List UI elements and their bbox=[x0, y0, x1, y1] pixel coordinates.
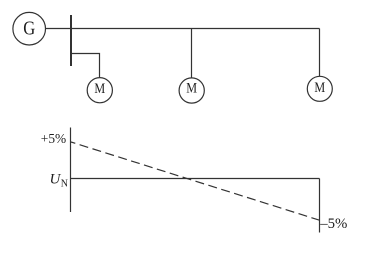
generator G1 bbox=[13, 12, 46, 45]
wire main bus bbox=[71, 28, 320, 30]
wire drop to motor M2 bbox=[191, 29, 193, 78]
dashed voltage drop line bbox=[71, 142, 320, 220]
busbar B1 bbox=[70, 15, 72, 66]
motor M1 bbox=[87, 78, 112, 103]
svg-text:M: M bbox=[94, 81, 105, 97]
svg-text:+5%: +5% bbox=[41, 131, 66, 146]
wire G to busbar bbox=[46, 28, 71, 30]
motor M3 bbox=[307, 76, 332, 101]
svg-text:M: M bbox=[186, 81, 197, 97]
svg-text:M: M bbox=[314, 80, 325, 96]
svg-text:N: N bbox=[61, 178, 68, 189]
wire nominal voltage line bbox=[71, 178, 320, 180]
motor M2 bbox=[179, 78, 204, 103]
graph right vertical line bbox=[319, 179, 321, 233]
wire drop to motor M3 bbox=[319, 29, 321, 77]
svg-text:U: U bbox=[50, 171, 62, 187]
svg-text:–5%: –5% bbox=[319, 216, 347, 232]
svg-text:G: G bbox=[23, 19, 35, 40]
graph vertical axis bbox=[70, 128, 72, 213]
wire branch to motor M1 bbox=[72, 54, 100, 78]
